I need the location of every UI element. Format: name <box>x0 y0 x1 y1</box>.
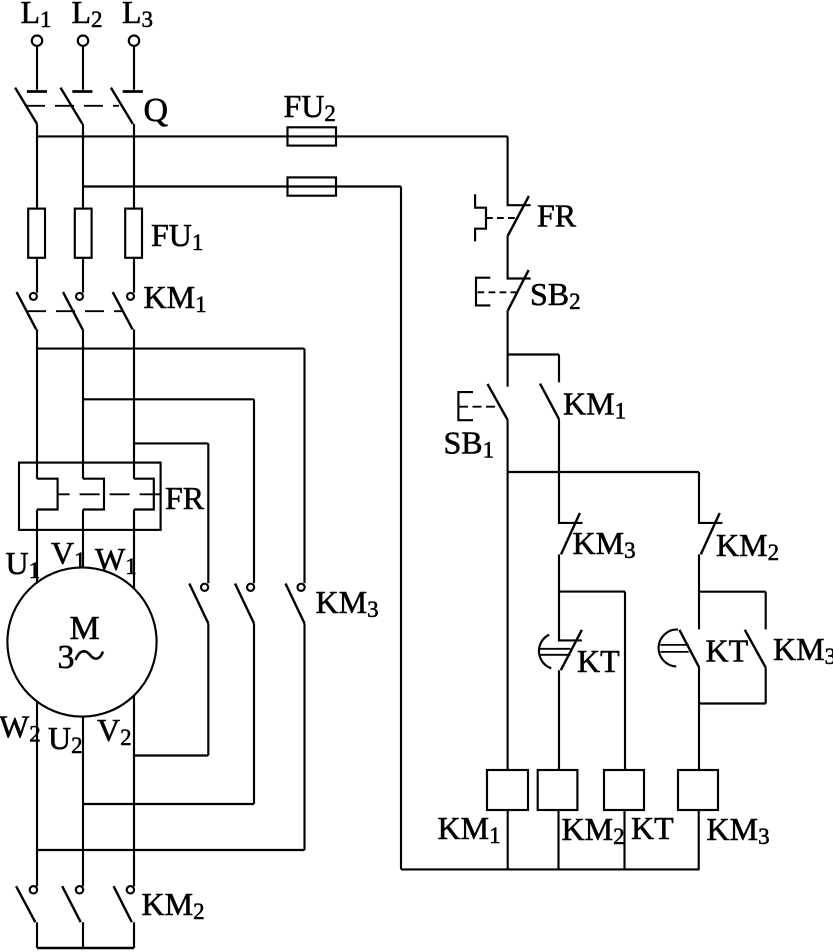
svg-text:KT: KT <box>706 633 749 669</box>
svg-text:FR: FR <box>165 480 205 516</box>
svg-text:KM3: KM3 <box>773 631 833 669</box>
svg-text:KT: KT <box>577 643 620 679</box>
svg-text:Q: Q <box>144 92 169 129</box>
svg-text:KT: KT <box>631 810 674 846</box>
svg-text:3: 3 <box>58 639 75 676</box>
svg-text:FR: FR <box>537 198 577 234</box>
